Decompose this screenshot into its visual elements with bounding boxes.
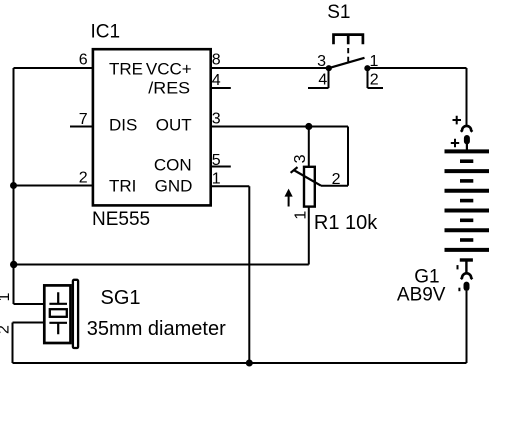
junction dot left bus / mid wire [10,261,17,268]
speaker SG1 body box [44,285,70,343]
junction dot TRI node [10,182,17,189]
wire pot pin2 branch vertical [347,127,349,186]
switch S1 lever [329,58,365,68]
switch S1 pin3 node dot [326,65,332,71]
wire pot bottom [308,207,310,264]
svg-text:3: 3 [317,53,326,70]
battery G1 top connector socket arc [461,126,472,132]
wire switch pin1 to battery [368,67,467,69]
speaker SG1 pin2 wire [13,323,45,364]
svg-text:2: 2 [0,325,12,334]
svg-text:AB9V: AB9V [397,285,446,306]
svg-text:VCC+: VCC+ [146,60,192,79]
battery G1 bottom connector socket arc [461,273,472,279]
svg-text:1: 1 [0,293,13,302]
battery G1 plus sign (wire side) [453,116,462,125]
switch S1 pin2 stub [368,68,384,88]
wire pin5 stub [211,166,231,168]
wire GND vertical [248,186,250,363]
svg-text:S1: S1 [327,2,350,23]
speaker SG1 top plate symbol [49,292,67,304]
svg-text:TRI: TRI [109,176,136,195]
battery G1 minus tick (upper) [457,265,459,269]
svg-text:2: 2 [332,171,341,188]
wire bottom rail [13,362,467,364]
battery G1 minus tick (lower) [458,288,460,292]
wire pin8 to switch [211,67,329,69]
battery G1 bottom T contact [460,258,473,261]
svg-text:NE555: NE555 [92,209,150,230]
wire pin2 to left bus [14,185,93,187]
svg-text:GND: GND [155,176,193,195]
svg-text:R1 10k: R1 10k [314,212,378,234]
svg-text:SG1: SG1 [101,287,141,309]
wire pin6 to left bus [14,67,93,69]
svg-text:8: 8 [212,52,221,69]
wire mid horizontal to R1 bottom [14,264,309,266]
svg-text:OUT: OUT [156,115,192,134]
wire pot pin2 branch horizontal [321,185,348,187]
wire pin1 GND horizontal [211,185,250,187]
svg-text:TRE: TRE [109,60,143,79]
speaker SG1 pin1 wire [14,303,45,305]
battery G1 bottom terminal pin [464,282,470,291]
switch S1 pin4 stub [308,68,329,88]
svg-text:6: 6 [79,52,88,69]
speaker SG1 membrane bar [73,280,78,348]
svg-text:3: 3 [292,154,309,163]
svg-text:3: 3 [212,110,221,127]
svg-text:35mm diameter: 35mm diameter [87,318,226,340]
svg-text:CON: CON [154,155,192,174]
speaker SG1 crystal rectangle [50,309,67,317]
svg-text:DIS: DIS [109,115,137,134]
speaker SG1 bottom plate symbol [49,323,67,335]
svg-text:1: 1 [212,171,221,188]
svg-text:4: 4 [212,72,221,89]
wire pin7 stub [70,126,93,128]
potentiometer R1 body [304,167,315,207]
wire pin4 stub [211,87,231,89]
battery G1 plus sign (battery side) [451,139,459,147]
junction dot pin3 / R1 [305,123,312,130]
svg-text:2: 2 [370,72,379,89]
wire left bus vertical [13,68,15,304]
wire pin3 to pot branch [211,126,348,128]
svg-text:IC1: IC1 [91,22,121,43]
switch S1 actuator dashed link [347,48,349,62]
switch S1 actuator bracket [334,35,363,45]
potentiometer R1 adjust arrow [288,193,290,207]
battery G1 top terminal pin [464,135,470,144]
switch S1 pin1 node dot [364,65,370,71]
potentiometer R1 wiper end bar [291,167,298,173]
IC IC1 NE555 body [93,49,211,205]
svg-text:2: 2 [79,170,88,187]
svg-text:/RES: /RES [148,79,190,98]
potentiometer R1 wiper diagonal [295,171,322,186]
junction dot bottom rail [246,360,253,367]
svg-text:4: 4 [318,72,327,89]
wire battery top vertical [466,68,468,125]
svg-text:1: 1 [292,211,309,220]
wire battery bottom vertical [466,291,468,363]
wire pot top [308,127,310,167]
battery G1 cell plates [445,149,490,153]
